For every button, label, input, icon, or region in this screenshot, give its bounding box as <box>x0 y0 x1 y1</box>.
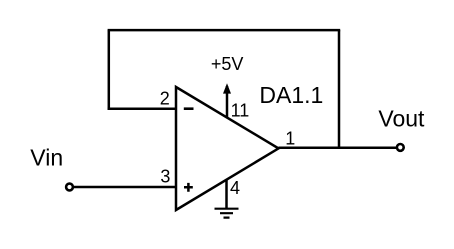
wire feedback left vertical <box>108 30 111 110</box>
svg-text:DA1.1: DA1.1 <box>259 82 323 108</box>
wire feedback top rail <box>108 29 341 32</box>
svg-text:+5V: +5V <box>211 54 244 74</box>
non-inverting input plus symbol <box>184 183 193 192</box>
svg-text:11: 11 <box>231 101 250 121</box>
svg-text:Vout: Vout <box>378 106 425 132</box>
terminal Vin <box>66 184 73 191</box>
ground symbol <box>215 209 239 218</box>
wire to inverting input pin 2 <box>108 107 176 110</box>
ground pin 4 wire <box>225 179 228 209</box>
power pin 11 wire <box>226 86 229 118</box>
wire feedback right vertical (output node to top rail) <box>338 30 341 149</box>
svg-text:1: 1 <box>285 128 295 148</box>
wire input Vin to pin 3 <box>74 186 176 189</box>
svg-text:2: 2 <box>160 89 170 109</box>
wire output node to Vout terminal <box>279 147 397 150</box>
inverting input minus symbol <box>184 107 194 110</box>
svg-text:Vin: Vin <box>30 145 63 171</box>
power arrow head +5V <box>223 83 231 93</box>
svg-text:4: 4 <box>230 178 240 198</box>
op-amp DA1.1 triangle body <box>176 87 279 210</box>
svg-text:3: 3 <box>160 167 170 187</box>
terminal Vout <box>397 144 404 151</box>
